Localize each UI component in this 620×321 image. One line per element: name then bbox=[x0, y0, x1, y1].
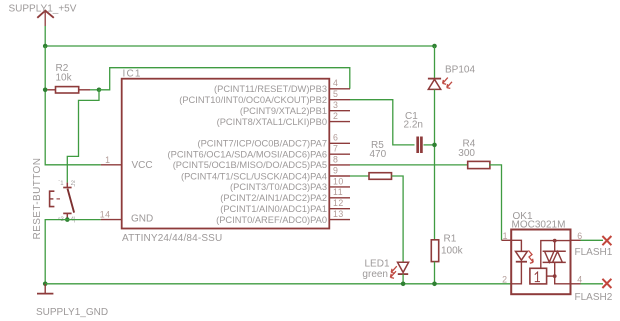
svg-text:MOC3021M: MOC3021M bbox=[512, 220, 566, 231]
svg-text:(PCINT2/AIN1/ADC2)PA2: (PCINT2/AIN1/ADC2)PA2 bbox=[220, 193, 327, 203]
label BP104 bbox=[445, 65, 475, 76]
svg-text:(PCINT11/RESET/DW)PB3: (PCINT11/RESET/DW)PB3 bbox=[214, 84, 327, 94]
svg-text:FLASH1: FLASH1 bbox=[575, 247, 613, 258]
svg-text:7: 7 bbox=[333, 144, 338, 154]
svg-text:13: 13 bbox=[333, 209, 344, 219]
svg-text:3: 3 bbox=[333, 100, 338, 110]
OK1 pin 6 stub bbox=[571, 231, 583, 241]
svg-text:9: 9 bbox=[333, 165, 338, 175]
svg-text:(PCINT0/AREF/ADC0)PA0: (PCINT0/AREF/ADC0)PA0 bbox=[216, 215, 327, 225]
wire GND pin14 run bbox=[45, 220, 101, 284]
svg-text:green: green bbox=[362, 269, 388, 280]
wire +5V down to R2 and VCC bbox=[45, 46, 101, 165]
svg-text:GND: GND bbox=[131, 214, 153, 225]
svg-text:2: 2 bbox=[333, 111, 338, 121]
wire RESET to pin4 over IC bbox=[99, 68, 350, 90]
node R2 left junction bbox=[43, 88, 48, 93]
label IC1 bbox=[123, 69, 142, 80]
label FLASH1 bbox=[575, 247, 613, 258]
node R1 rail junction bbox=[432, 282, 437, 287]
label FLASH2 bbox=[575, 292, 613, 303]
svg-text:300: 300 bbox=[458, 148, 475, 159]
svg-text:R1: R1 bbox=[444, 234, 457, 245]
svg-text:BP104: BP104 bbox=[445, 65, 475, 76]
svg-text:FLASH2: FLASH2 bbox=[575, 292, 613, 303]
wire LED1 to rail bbox=[402, 274, 404, 284]
wire R5 to LED1 bbox=[392, 176, 404, 262]
label R4 300 bbox=[458, 138, 475, 159]
svg-text:RESET-BUTTON: RESET-BUTTON bbox=[32, 158, 43, 240]
svg-text:12: 12 bbox=[333, 198, 344, 208]
label LED1 green bbox=[362, 258, 390, 280]
wire C1 right to node bbox=[424, 144, 435, 146]
net flag FLASH1 X bbox=[602, 236, 611, 245]
svg-text:100k: 100k bbox=[441, 246, 464, 257]
OK1 pin 2 stub bbox=[502, 274, 507, 284]
node C1 junction bbox=[432, 143, 437, 148]
svg-text:2.2n: 2.2n bbox=[404, 119, 423, 130]
label R1 100k bbox=[441, 234, 464, 257]
pin PA6 7 bbox=[168, 144, 350, 160]
svg-text:10k: 10k bbox=[56, 73, 73, 84]
svg-text:(PCINT6/OC1A/SDA/MOSI/ADC6)PA6: (PCINT6/OC1A/SDA/MOSI/ADC6)PA6 bbox=[168, 150, 327, 160]
pin PA3 10 bbox=[230, 176, 350, 192]
wire pin5 PB2 to C1 bbox=[350, 100, 415, 145]
svg-text:1: 1 bbox=[503, 231, 508, 241]
svg-text:6: 6 bbox=[577, 231, 582, 241]
pin VCC 1 bbox=[101, 155, 153, 171]
capacitor C1 bbox=[418, 137, 422, 154]
wire GND bottom rail bbox=[45, 283, 511, 285]
svg-text:LED1: LED1 bbox=[364, 258, 389, 269]
svg-text:8: 8 bbox=[333, 154, 338, 164]
svg-text:11: 11 bbox=[333, 187, 343, 197]
op IC1 body ATTINY24/44/84-SSU bbox=[122, 79, 330, 229]
svg-text:10: 10 bbox=[333, 176, 344, 186]
svg-text:(PCINT8/XTAL1/CLKI)PB0: (PCINT8/XTAL1/CLKI)PB0 bbox=[217, 117, 327, 127]
pin PB2 5 bbox=[179, 89, 350, 105]
OK1 pin 1 stub bbox=[503, 231, 508, 241]
label RESET-BUTTON bbox=[32, 158, 43, 240]
svg-text:1: 1 bbox=[105, 155, 110, 165]
wire pin9 PA4 to R5 bbox=[350, 175, 369, 177]
optocoupler OK1 MOC3021M bbox=[511, 230, 570, 295]
svg-text:(PCINT5/OC1B/MISO/DO/ADC5)PA5: (PCINT5/OC1B/MISO/DO/ADC5)PA5 bbox=[173, 160, 327, 170]
pin PA0 13 bbox=[216, 209, 350, 225]
svg-text:470: 470 bbox=[370, 149, 387, 160]
node +5V rail tap bbox=[43, 44, 48, 49]
pin PB3 4 bbox=[214, 78, 350, 94]
resistor R1 bbox=[431, 240, 438, 262]
pin PB0 2 bbox=[217, 111, 350, 127]
pin PA2 11 bbox=[220, 187, 350, 203]
LED LED1 green bbox=[390, 262, 408, 278]
wire RESET down to switch bbox=[67, 90, 99, 183]
label R2 10k bbox=[56, 63, 73, 84]
node LED1 rail junction bbox=[401, 282, 406, 287]
net label SUPPLY1_+5V bbox=[9, 3, 77, 14]
wire OK1 pin6 to FLASH1 bbox=[581, 239, 604, 241]
svg-text:´1: ´1 bbox=[58, 181, 64, 187]
label R5 470 bbox=[370, 140, 387, 160]
svg-text:(PCINT4/T1/SCL/USCK/ADC4)PA4: (PCINT4/T1/SCL/USCK/ADC4)PA4 bbox=[181, 171, 327, 181]
wire rail down to BP104 bbox=[434, 46, 436, 78]
node GND rail left bbox=[43, 282, 48, 287]
svg-text:14: 14 bbox=[100, 210, 111, 220]
net label SUPPLY1_GND bbox=[36, 307, 108, 318]
photodiode BP104 bbox=[428, 78, 452, 90]
switch RESET-BUTTON bbox=[50, 183, 75, 220]
node BP104 top rail bbox=[432, 44, 437, 49]
wire +5V top rail bbox=[45, 45, 434, 47]
svg-text:ATTINY24/44/84-SSU: ATTINY24/44/84-SSU bbox=[122, 233, 222, 244]
svg-text:4: 4 bbox=[577, 274, 582, 284]
pin PA5 8 bbox=[173, 154, 350, 170]
wire R1 bottom to rail bbox=[434, 262, 436, 284]
svg-text:SUPPLY1_+5V: SUPPLY1_+5V bbox=[9, 3, 77, 14]
wire R2 right to junction bbox=[90, 89, 99, 91]
OK1 pin1 stub red bbox=[502, 239, 512, 241]
wire supply drop to +5V rail bbox=[44, 26, 46, 46]
svg-text:(PCINT7/ICP/OC0B/ADC7)PA7: (PCINT7/ICP/OC0B/ADC7)PA7 bbox=[198, 139, 328, 149]
switch pin marks bbox=[58, 181, 76, 223]
node switch to GND junction bbox=[65, 217, 70, 222]
label OK1 MOC3021M bbox=[512, 211, 566, 231]
pin PB1 3 bbox=[240, 100, 350, 116]
net flag FLASH2 X bbox=[602, 279, 611, 288]
svg-text:2¦: 2¦ bbox=[71, 181, 76, 187]
svg-text:(PCINT9/XTAL2)PB1: (PCINT9/XTAL2)PB1 bbox=[240, 106, 327, 116]
OK1 internal triac bbox=[541, 239, 571, 284]
pin PA4 9 bbox=[181, 165, 350, 181]
pin PA1 12 bbox=[220, 198, 350, 214]
OK1 emission arrow bbox=[529, 251, 534, 264]
svg-text:SUPPLY1_GND: SUPPLY1_GND bbox=[36, 307, 108, 318]
label ATTINY24/44/84-SSU bbox=[122, 233, 222, 244]
svg-text:5: 5 bbox=[333, 89, 338, 99]
wire R4 to OK1 pin1 bbox=[489, 165, 502, 240]
node RESET junction bbox=[97, 88, 102, 93]
ground symbol SUPPLY1_GND bbox=[37, 284, 53, 294]
OK1 driver box bbox=[530, 268, 555, 284]
supply +5V symbol SUPPLY1 bbox=[37, 11, 54, 26]
svg-text:2: 2 bbox=[502, 274, 507, 284]
svg-text:(PCINT3/T0/ADC3)PA3: (PCINT3/T0/ADC3)PA3 bbox=[230, 182, 327, 192]
wire OK1 pin4 to FLASH2 bbox=[581, 283, 604, 285]
resistor R2 bbox=[48, 87, 91, 93]
resistor R5 bbox=[369, 173, 392, 180]
wire BP104 to C1 node to R1 bbox=[434, 89, 436, 239]
svg-text:6: 6 bbox=[333, 133, 338, 143]
svg-text:4: 4 bbox=[333, 78, 338, 88]
wire pin8 PA5 to R4 bbox=[350, 164, 468, 166]
svg-text:(PCINT10/INT0/OC0A/CKOUT)PB2: (PCINT10/INT0/OC0A/CKOUT)PB2 bbox=[179, 95, 327, 105]
svg-text:VCC: VCC bbox=[132, 160, 153, 171]
svg-text:(PCINT1/AIN0/ADC1)PA1: (PCINT1/AIN0/ADC1)PA1 bbox=[220, 204, 327, 214]
OK1 internal LED bbox=[511, 240, 527, 283]
pin PA7 6 bbox=[198, 133, 351, 149]
label C1 2.2n bbox=[404, 111, 423, 130]
OK1 pin 4 stub bbox=[571, 274, 583, 284]
resistor R4 bbox=[468, 161, 490, 168]
pin GND 14 bbox=[100, 210, 154, 225]
svg-text:IC1: IC1 bbox=[123, 69, 142, 80]
